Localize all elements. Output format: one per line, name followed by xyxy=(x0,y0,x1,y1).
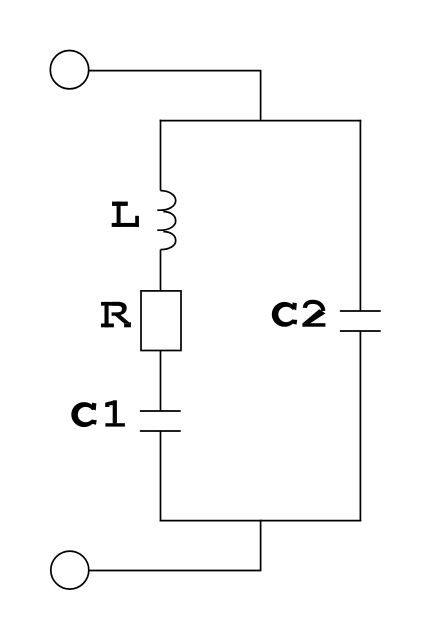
wire top bus to inductor xyxy=(160,120,162,191)
terminal T2 (bottom input) xyxy=(51,551,89,589)
label C1: C glyph xyxy=(71,402,99,427)
wire T1 to top node xyxy=(89,71,261,121)
label C1: 1 glyph xyxy=(105,400,125,426)
wire top bus xyxy=(160,120,362,122)
wire inductor to resistor xyxy=(160,250,162,291)
label R xyxy=(101,302,131,327)
wire bottom bus xyxy=(160,520,362,522)
resistor R xyxy=(141,291,181,351)
terminal T1 (top input) xyxy=(50,50,88,88)
capacitor C2 bottom plate xyxy=(340,330,381,332)
label C2: 2 glyph xyxy=(302,302,325,327)
label L xyxy=(112,202,139,227)
wire resistor to C1 xyxy=(160,351,162,412)
wire C2 to bottom bus xyxy=(359,331,361,521)
label C2: C glyph xyxy=(272,302,300,327)
wire C1 to bottom bus xyxy=(160,431,162,521)
capacitor C1 top plate xyxy=(140,410,181,412)
capacitor C2 top plate xyxy=(340,310,381,312)
inductor L xyxy=(157,191,175,250)
capacitor C1 bottom plate xyxy=(140,430,181,432)
wire bottom node to T2 xyxy=(89,520,261,571)
wire top bus to C2 xyxy=(359,120,361,311)
